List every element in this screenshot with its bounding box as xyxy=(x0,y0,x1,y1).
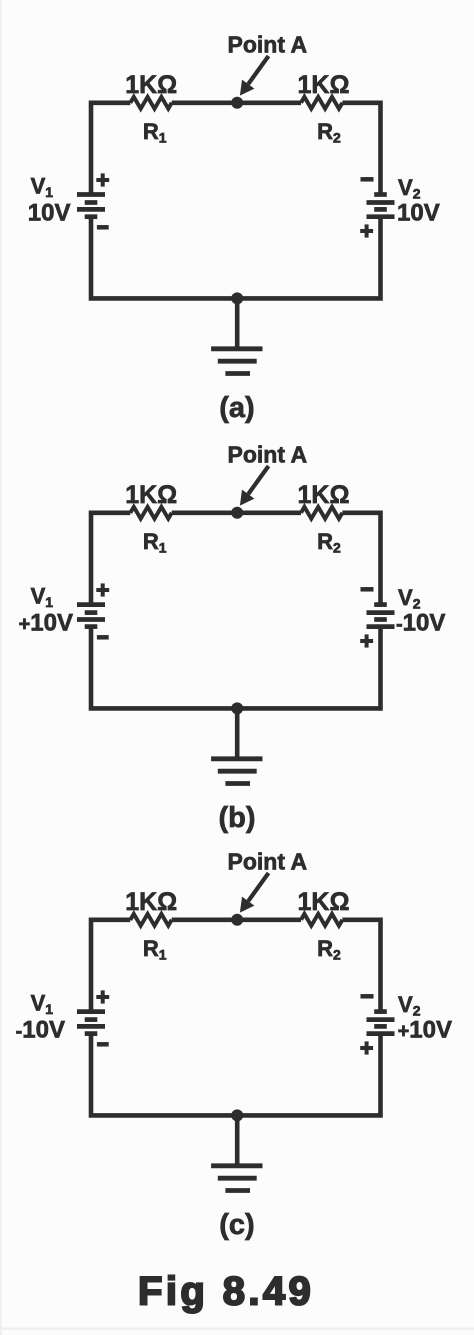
wire: ground stub (a) xyxy=(235,298,240,348)
ground symbol (a) xyxy=(211,349,262,374)
wire: top loop (left battery + terminal up, across top through R1/R2, down to right battery - terminal) (c) xyxy=(91,920,381,1011)
svg-text:10V: 10V xyxy=(28,200,71,227)
svg-text:R1: R1 xyxy=(143,936,167,963)
svg-text:1KΩ: 1KΩ xyxy=(297,71,349,99)
svg-text:V2: V2 xyxy=(398,992,421,1019)
battery V1 plates (c) xyxy=(77,1012,105,1034)
svg-text:-10V: -10V xyxy=(396,609,445,636)
wire: bottom loop (left battery - terminal down, across bottom, up to right battery + terminal) (a) xyxy=(91,216,381,298)
wire: bottom loop (left battery - terminal down, across bottom, up to right battery + terminal) (b) xyxy=(91,626,381,708)
svg-text:1KΩ: 1KΩ xyxy=(297,481,349,509)
battery V1 minus polarity mark (a) xyxy=(97,225,109,230)
node Point A junction dot (a) xyxy=(231,97,243,109)
svg-text:(a): (a) xyxy=(219,392,254,424)
wire: top loop (left battery + terminal up, across top through R1/R2, down to right battery - terminal) (b) xyxy=(91,513,381,604)
resistor R2 zigzag body (a) xyxy=(301,97,342,109)
svg-text:V2: V2 xyxy=(398,175,421,202)
svg-text:Point A: Point A xyxy=(228,849,308,875)
svg-text:V1: V1 xyxy=(31,584,54,611)
node: bottom junction dot (b) xyxy=(231,702,243,714)
wire: bottom loop (left battery - terminal down, across bottom, up to right battery + terminal) (c) xyxy=(91,1033,381,1115)
battery V1 plates (b) xyxy=(77,605,105,627)
arrow from Point A label to node (a) xyxy=(240,56,269,96)
svg-text:R2: R2 xyxy=(317,529,341,556)
svg-text:V2: V2 xyxy=(398,585,421,612)
arrow from Point A label to node (b) xyxy=(240,466,269,506)
resistor R1 zigzag body (a) xyxy=(130,97,171,109)
svg-text:Fig 8.49: Fig 8.49 xyxy=(138,1270,314,1314)
wire: top loop (left battery + terminal up, across top through R1/R2, down to right battery - terminal) (a) xyxy=(91,103,381,194)
wire: ground stub (c) xyxy=(235,1115,240,1165)
resistor R1 zigzag body (b) xyxy=(130,507,171,519)
battery V2 plus polarity mark (b) xyxy=(360,634,373,647)
svg-text:-10V: -10V xyxy=(16,1017,65,1044)
svg-text:1KΩ: 1KΩ xyxy=(125,888,177,916)
svg-text:Point A: Point A xyxy=(228,442,308,468)
wire: ground stub (b) xyxy=(235,708,240,758)
battery V1 plus polarity mark (b) xyxy=(96,583,109,596)
svg-text:R2: R2 xyxy=(317,119,341,146)
ground symbol (c) xyxy=(211,1166,262,1191)
battery V2 plates (b) xyxy=(367,605,395,627)
svg-text:V1: V1 xyxy=(31,991,54,1018)
battery V1 plus polarity mark (c) xyxy=(96,990,109,1003)
battery V1 minus polarity mark (c) xyxy=(97,1042,109,1047)
svg-text:1KΩ: 1KΩ xyxy=(125,71,177,99)
svg-text:10V: 10V xyxy=(397,199,440,226)
svg-text:Point A: Point A xyxy=(228,32,308,58)
svg-text:R1: R1 xyxy=(143,119,167,146)
battery V2 plates (c) xyxy=(367,1012,395,1034)
battery V2 plates (a) xyxy=(367,195,395,217)
node: bottom junction dot (a) xyxy=(231,292,243,304)
battery V1 plates (a) xyxy=(77,195,105,217)
battery V1 plus polarity mark (a) xyxy=(96,173,109,186)
battery V2 plus polarity mark (a) xyxy=(360,224,373,237)
node Point A junction dot (b) xyxy=(231,507,243,519)
battery V1 minus polarity mark (b) xyxy=(97,635,109,640)
battery V2 minus polarity mark (c) xyxy=(361,994,374,999)
node Point A junction dot (c) xyxy=(231,914,243,926)
svg-text:1KΩ: 1KΩ xyxy=(297,888,349,916)
resistor R2 zigzag body (c) xyxy=(301,914,342,926)
svg-text:1KΩ: 1KΩ xyxy=(125,481,177,509)
battery V2 minus polarity mark (a) xyxy=(361,177,374,182)
svg-text:V1: V1 xyxy=(31,174,54,201)
battery V2 plus polarity mark (c) xyxy=(360,1041,373,1054)
arrow from Point A label to node (c) xyxy=(240,873,269,913)
resistor R1 zigzag body (c) xyxy=(130,914,171,926)
svg-text:+10V: +10V xyxy=(398,1016,452,1043)
svg-text:+10V: +10V xyxy=(19,610,73,637)
svg-text:(c): (c) xyxy=(219,1209,254,1241)
ground symbol (b) xyxy=(211,759,262,784)
node: bottom junction dot (c) xyxy=(231,1109,243,1121)
svg-text:R2: R2 xyxy=(317,936,341,963)
resistor R2 zigzag body (b) xyxy=(301,507,342,519)
svg-text:(b): (b) xyxy=(218,802,255,834)
battery V2 minus polarity mark (b) xyxy=(361,587,374,592)
svg-text:R1: R1 xyxy=(143,529,167,556)
